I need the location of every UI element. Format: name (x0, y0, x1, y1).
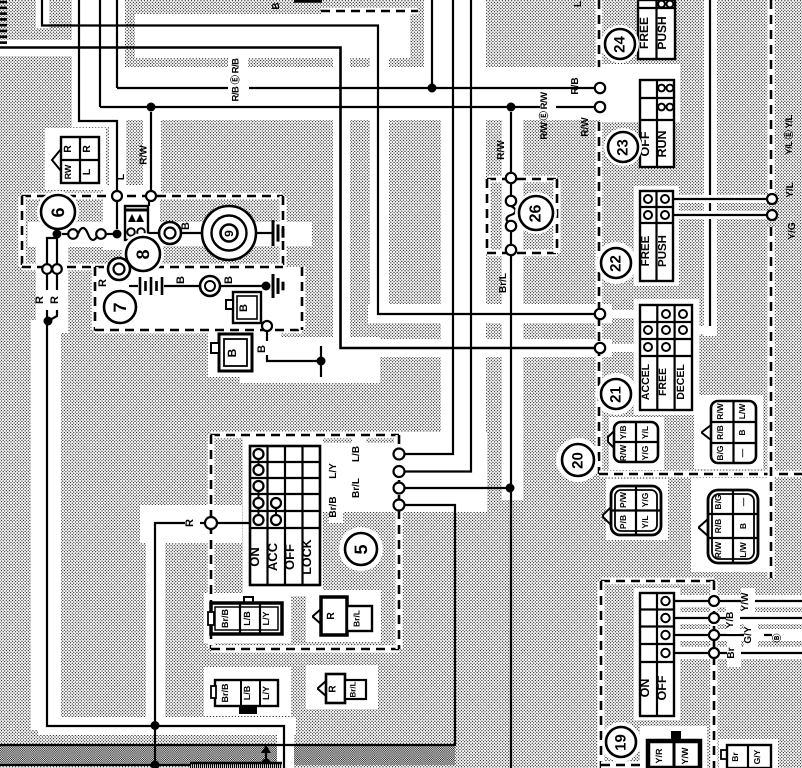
svg-text:R/W: R/W (496, 140, 507, 160)
6-pin connector B (699, 519, 708, 536)
svg-text:R/B: R/B (715, 425, 725, 440)
svg-text:B/G: B/G (715, 445, 725, 461)
svg-text:R/W: R/W (715, 402, 725, 420)
wire from B box down (262, 321, 272, 331)
svg-text:R: R (325, 612, 337, 620)
svg-text:Y/L: Y/L (640, 515, 650, 528)
svg-text:Br: Br (726, 647, 737, 658)
block 23 (640, 80, 674, 167)
svg-text:B: B (738, 523, 748, 529)
wire L/B up (404, 0, 453, 454)
svg-text:7: 7 (110, 302, 130, 312)
svg-text:Y/B: Y/B (725, 612, 736, 629)
fuse 26 pins (506, 173, 516, 183)
svg-text:—: — (737, 448, 747, 457)
dashed box 19 (601, 578, 714, 585)
svg-text:R: R (97, 279, 109, 287)
wavy wire row (53, 230, 62, 239)
pin connector below 8 (108, 258, 130, 280)
fuse 26 wire down (510, 255, 512, 768)
wire to connector (148, 232, 158, 234)
component 8 circle (122, 233, 164, 275)
svg-text:Y/L Ⓔ Y/L: Y/L Ⓔ Y/L (783, 115, 795, 155)
2-pin connector R Br/L (lower) (318, 681, 326, 696)
top edge fragment (294, 0, 322, 3)
wire D branch x511 to fuse (510, 112, 512, 173)
connector Br G/Y (721, 750, 727, 759)
svg-text:9: 9 (222, 230, 236, 237)
svg-text:R: R (34, 296, 46, 304)
svg-text:B/G: B/G (713, 494, 723, 510)
svg-text:Y/G: Y/G (787, 222, 798, 239)
svg-text:19: 19 (613, 734, 630, 751)
svg-text:B: B (180, 222, 192, 230)
svg-text:Y/L: Y/L (785, 182, 796, 198)
wire R from switch (155, 523, 250, 765)
svg-text:RW: RW (63, 164, 73, 179)
svg-text:L/B: L/B (351, 446, 362, 462)
dashed box fuse 26 (487, 176, 557, 183)
block 22 wires east (673, 199, 767, 215)
wire L/Y up (404, 0, 471, 472)
round connector pin pair (159, 222, 181, 244)
svg-text:L/B: L/B (242, 685, 252, 700)
svg-text:Y/W: Y/W (680, 747, 690, 765)
component 9 (main switch body) (202, 206, 256, 260)
wire D (R/W) (100, 0, 595, 107)
svg-text:Br/B: Br/B (220, 683, 230, 703)
svg-text:Br: Br (730, 752, 740, 762)
wire D branch x151 (150, 112, 152, 191)
svg-text:6: 6 (48, 207, 68, 217)
svg-text:R: R (328, 685, 339, 693)
main switch block 5 (250, 446, 320, 585)
svg-text:R/W: R/W (713, 541, 723, 559)
svg-text:ON: ON (638, 679, 652, 698)
circled 20 (558, 440, 598, 480)
wire E (R/B) (117, 0, 595, 88)
component 7 circle (100, 287, 140, 327)
svg-text:L/Y: L/Y (261, 611, 271, 625)
connector Y/R Y/W (671, 731, 681, 741)
dashed line top (321, 8, 418, 15)
small B box (233, 292, 261, 323)
svg-text:Br/B: Br/B (220, 609, 230, 629)
svg-text:R: R (62, 145, 74, 153)
svg-text:R/B Ⓔ R/B: R/B Ⓔ R/B (230, 58, 242, 102)
svg-text:L/W: L/W (738, 541, 748, 558)
dashed enclosure box B (component 7) (92, 267, 99, 330)
wire V11 (692, 0, 710, 330)
svg-text:23: 23 (615, 139, 632, 156)
big B box (219, 334, 252, 371)
3-pin connector Br/B L/B L/Y (upper) (244, 597, 253, 605)
wire Br/L (404, 487, 511, 489)
svg-text:5: 5 (351, 544, 371, 554)
svg-text:L: L (115, 173, 127, 180)
wire x46 down (48, 238, 57, 321)
wire C (L) (79, 0, 117, 191)
svg-text:—: — (738, 497, 748, 506)
svg-text:Y/L: Y/L (640, 426, 650, 439)
svg-text:G/Y: G/Y (743, 626, 754, 644)
svg-text:21: 21 (608, 386, 625, 403)
svg-text:R/W Ⓔ R/W: R/W Ⓔ R/W (538, 92, 550, 140)
svg-text:PUSH: PUSH (657, 235, 669, 267)
svg-text:ACCEL: ACCEL (640, 363, 652, 400)
svg-text:LOCK: LOCK (300, 539, 314, 574)
svg-text:DECEL: DECEL (675, 364, 687, 400)
block 21 (640, 305, 692, 410)
svg-text:Br/L: Br/L (498, 273, 509, 293)
2-pin connector R Br/L (upper) (313, 609, 321, 624)
bottom wire y765 (0, 764, 265, 766)
svg-text:L/Y: L/Y (261, 686, 271, 700)
svg-text:B: B (271, 2, 282, 9)
svg-text:Ⓑ: Ⓑ (772, 633, 782, 642)
wire x432 from top (431, 0, 433, 88)
wire Br/B down-left (0, 505, 455, 745)
svg-text:Br/L: Br/L (352, 610, 362, 627)
svg-text:B: B (737, 429, 747, 435)
hatched component bottom (190, 763, 282, 768)
white wire channels (36, 0, 49, 28)
block 19 (640, 593, 674, 716)
svg-text:ON: ON (247, 547, 262, 567)
R R / RW L connector (52, 149, 61, 171)
svg-text:24: 24 (612, 36, 629, 53)
svg-text:RUN: RUN (655, 130, 669, 157)
svg-text:Br/B: Br/B (328, 496, 339, 517)
svg-text:L: L (81, 168, 93, 175)
wire path B from west (0, 48, 595, 349)
svg-text:B: B (223, 276, 235, 284)
svg-text:R/W: R/W (618, 444, 628, 462)
fuse squiggle (507, 206, 516, 224)
wire R/W path A from top (42, 0, 595, 314)
svg-text:G/Y: G/Y (752, 749, 762, 764)
svg-text:P/B: P/B (618, 515, 628, 529)
dashed enclosure box A (components 6,8,9) (22, 193, 283, 200)
white underlays for stub wires (604, 310, 640, 318)
svg-text:20: 20 (570, 452, 587, 469)
svg-text:Y/W: Y/W (740, 592, 751, 611)
svg-text:B: B (225, 348, 239, 357)
striped component edge top-left (0, 1, 7, 4)
svg-text:L/W: L/W (737, 403, 747, 420)
svg-text:R/B: R/B (570, 77, 581, 94)
svg-text:B: B (238, 304, 250, 312)
svg-text:OFF: OFF (655, 675, 669, 700)
dark halftone band bottom (0, 746, 455, 765)
block 24 (638, 0, 675, 59)
pin circles on box 5 right edge (394, 449, 405, 460)
svg-text:Y/R: Y/R (654, 748, 664, 764)
svg-text:R/W: R/W (139, 145, 150, 165)
component 6 circle (37, 191, 79, 233)
svg-text:FREE: FREE (657, 368, 669, 396)
svg-text:P/W: P/W (618, 491, 628, 508)
svg-text:22: 22 (608, 255, 625, 272)
junction dots (147, 103, 156, 112)
svg-text:R: R (49, 296, 61, 304)
svg-text:L/B: L/B (242, 611, 252, 626)
svg-text:R/W: R/W (580, 117, 591, 137)
svg-text:Y/G: Y/G (640, 445, 650, 460)
3-pin connector Br/B L/B L/Y (lower) (215, 680, 278, 706)
svg-text:L/Y: L/Y (328, 463, 339, 479)
svg-text:Y/B: Y/B (618, 425, 628, 439)
R R pin circles on box edge (42, 264, 52, 274)
block 19 wires east (674, 600, 802, 602)
ground in box B (272, 274, 275, 298)
svg-text:ACC: ACC (265, 542, 280, 571)
svg-text:R: R (81, 145, 93, 153)
battery (129, 285, 138, 287)
svg-text:B: B (256, 345, 268, 353)
dashed box 5 (main switch) (211, 432, 399, 439)
svg-text:L: L (573, 1, 584, 7)
block 22 (640, 191, 673, 281)
svg-text:PUSH: PUSH (655, 16, 669, 49)
svg-text:8: 8 (133, 249, 153, 259)
svg-text:FREE: FREE (640, 235, 652, 266)
6-pin connector A (702, 425, 711, 440)
connector 20b (603, 507, 611, 525)
svg-text:Br/L: Br/L (349, 681, 358, 697)
svg-text:Br/L: Br/L (351, 478, 362, 498)
circled 26 (515, 192, 557, 234)
svg-text:R/B: R/B (713, 519, 723, 534)
dashed handlebar switch box (right) (596, 0, 603, 67)
contact block (switch) (125, 206, 148, 240)
stub at 266 (265, 752, 267, 763)
svg-text:OFF: OFF (282, 544, 297, 570)
svg-text:FREE: FREE (637, 17, 651, 49)
connector 20a (608, 431, 614, 448)
svg-text:R: R (184, 519, 196, 527)
svg-text:26: 26 (528, 205, 545, 223)
svg-text:Y/G: Y/G (640, 492, 650, 507)
svg-text:B: B (175, 276, 187, 284)
ground right of 9 (272, 220, 275, 246)
